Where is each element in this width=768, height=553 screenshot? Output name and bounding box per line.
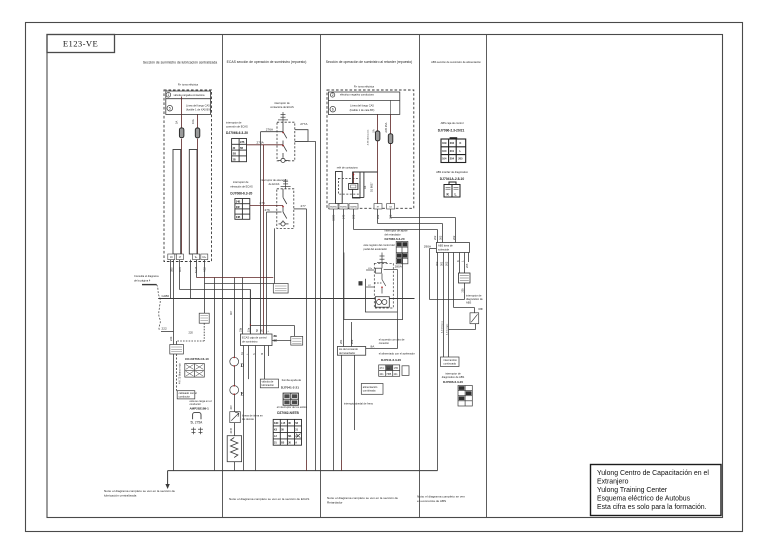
svg-text:104: 104	[442, 157, 447, 161]
svg-text:27B: 27B	[240, 141, 245, 144]
svg-text:conexión: conexión	[379, 341, 390, 345]
svg-text:5B: 5B	[240, 147, 243, 150]
svg-text:274: 274	[380, 367, 385, 370]
svg-text:34B: 34B	[236, 216, 241, 219]
svg-text:Yulong Training Center: Yulong Training Center	[597, 487, 668, 494]
svg-text:DJ7066-6.3-20: DJ7066-6.3-20	[230, 192, 252, 196]
svg-text:205: 205	[458, 157, 463, 161]
svg-text:277A: 277A	[300, 122, 308, 126]
svg-text:éste registro del control del: éste registro del control del	[364, 243, 396, 247]
svg-text:407: 407	[229, 405, 233, 410]
svg-text:Extranjero: Extranjero	[597, 479, 629, 486]
svg-text:277: 277	[301, 204, 306, 208]
svg-text:ABS sección de suministro de a: ABS sección de suministro de alimentació…	[431, 60, 481, 64]
svg-text:combinada: combinada	[363, 389, 376, 393]
svg-text:223: 223	[169, 336, 173, 341]
svg-text:G080: G080	[162, 294, 170, 298]
svg-text:CO-DZ766-C3-10: CO-DZ766-C3-10	[185, 357, 209, 361]
svg-text:K: K	[460, 141, 462, 145]
svg-text:R+ toma eléctrica: R+ toma eléctrica	[178, 83, 199, 87]
svg-text:M: M	[261, 353, 264, 355]
svg-text:DJ7041-6.3-20: DJ7041-6.3-20	[381, 358, 401, 362]
svg-text:DJ7041A-2.8-10: DJ7041A-2.8-10	[440, 177, 465, 181]
svg-text:interruptor de: interruptor de	[233, 180, 249, 184]
svg-text:de suministro: de suministro	[242, 339, 258, 343]
svg-text:los del comando: los del comando	[339, 347, 358, 351]
svg-text:E123-VE: E123-VE	[63, 39, 98, 49]
svg-text:Sección de operación de sumini: Sección de operación de suministro al re…	[326, 60, 413, 64]
svg-text:interruptor de: interruptor de	[226, 121, 242, 125]
svg-text:Nota: el diagrama completo se: Nota: el diagrama completo se ven en la …	[327, 496, 398, 500]
svg-text:Esquema eléctrico de Autobus: Esquema eléctrico de Autobus	[597, 496, 691, 503]
svg-text:Sección de suministro de lubri: Sección de suministro de lubricación cen…	[143, 61, 217, 65]
svg-text:válvula de: válvula de	[262, 380, 274, 384]
svg-text:8E: 8E	[274, 334, 278, 338]
svg-text:contactora de ECAS: contactora de ECAS	[270, 105, 294, 109]
svg-text:407: 407	[229, 310, 233, 315]
svg-text:SB: SB	[233, 153, 237, 156]
svg-text:202: 202	[444, 261, 448, 266]
svg-text:302: 302	[435, 261, 439, 266]
svg-text:continuado: continuado	[443, 361, 456, 365]
svg-text:D8F: D8F	[479, 308, 484, 311]
svg-text:2: 2	[332, 93, 334, 97]
svg-text:diagnóstico de ABS: diagnóstico de ABS	[442, 375, 465, 379]
svg-text:5L 275A: 5L 275A	[191, 421, 204, 425]
svg-text:30F: 30F	[236, 206, 241, 209]
svg-text:Consulta el diagrama: Consulta el diagrama	[134, 274, 159, 278]
svg-text:10+: 10+	[202, 256, 207, 259]
svg-text:202: 202	[433, 235, 437, 240]
svg-text:DJ7066-6.3-20: DJ7066-6.3-20	[385, 237, 405, 241]
svg-text:válvula cargada contactora: válvula cargada contactora	[174, 93, 206, 97]
svg-text:30(H5): 30(H5)	[350, 206, 357, 208]
svg-text:K: K	[456, 260, 460, 262]
svg-text:K30: K30	[274, 422, 279, 425]
svg-text:205: 205	[465, 263, 469, 268]
svg-text:201: 201	[450, 149, 455, 153]
svg-text:5: 5	[169, 106, 171, 110]
svg-text:8E: 8E	[274, 339, 278, 343]
svg-text:222: 222	[162, 327, 167, 331]
svg-text:DJ 6657: DJ 6657	[370, 182, 374, 192]
svg-text:10A: 10A	[191, 119, 195, 124]
svg-text:4-0.75 blanco rojo: 4-0.75 blanco rojo	[178, 363, 182, 384]
svg-text:34B: 34B	[236, 201, 241, 204]
svg-text:ABS: ABS	[466, 301, 471, 305]
svg-text:A: A	[295, 442, 297, 445]
svg-text:8A: 8A	[387, 367, 390, 370]
svg-text:262: 262	[376, 214, 380, 219]
svg-text:(fusible 1 de cata BX): (fusible 1 de cata BX)	[350, 108, 375, 112]
svg-text:ECAS caja de control: ECAS caja de control	[242, 336, 267, 340]
svg-text:ECAS sección de operación de s: ECAS sección de operación de suministro …	[227, 60, 307, 64]
svg-text:Nota: el diagrama completo se: Nota: el diagrama completo se ven	[417, 495, 465, 499]
svg-text:conductor: conductor	[179, 395, 191, 399]
svg-text:en economía de ABS: en economía de ABS	[417, 499, 446, 503]
svg-text:elevación de ECAS: elevación de ECAS	[230, 185, 253, 189]
svg-text:6: 6	[332, 107, 334, 111]
svg-text:el alimentado con el acelerado: el alimentado con el acelerador	[379, 352, 415, 356]
svg-text:204: 204	[450, 157, 455, 161]
svg-text:DZ7062-N/5TB: DZ7062-N/5TB	[277, 411, 299, 415]
svg-text:301: 301	[440, 261, 444, 266]
svg-text:alimentación: alimentación	[363, 385, 378, 389]
svg-text:L15: L15	[281, 422, 286, 425]
svg-text:Esta cifra es solo para la for: Esta cifra es solo para la formación.	[597, 504, 707, 511]
svg-text:A35 25A: A35 25A	[384, 122, 388, 132]
svg-text:2B: 2B	[233, 158, 236, 161]
svg-text:4-0.5 blanco: 4-0.5 blanco	[442, 320, 444, 333]
svg-text:205: 205	[462, 288, 465, 293]
svg-text:85(R5): 85(R5)	[340, 206, 347, 208]
svg-text:5A: 5A	[175, 121, 179, 124]
svg-text:100: 100	[442, 149, 447, 153]
svg-text:276: 276	[265, 208, 270, 212]
svg-text:interruptor de: interruptor de	[274, 101, 290, 105]
svg-text:ABS interfaz de diagnóstico: ABS interfaz de diagnóstico	[436, 170, 468, 174]
svg-text:276A: 276A	[266, 128, 274, 132]
svg-text:241: 241	[394, 373, 399, 376]
svg-text:de ECAS: de ECAS	[269, 182, 280, 186]
svg-text:Línea del fuego CA5: Línea del fuego CA5	[186, 103, 210, 107]
svg-text:Retardador: Retardador	[327, 501, 342, 505]
svg-text:4C5: 4C5	[178, 267, 182, 272]
svg-text:86(R5): 86(R5)	[330, 206, 337, 208]
svg-text:AMP282189-1: AMP282189-1	[190, 407, 210, 411]
svg-text:líneas de tierra en: líneas de tierra en	[242, 414, 263, 418]
svg-text:Nota: el diagrama completo se: Nota: el diagrama completo se ven en la …	[104, 489, 175, 493]
svg-text:eléctrico negativo conductora: eléctrico negativo conductora	[340, 93, 374, 97]
svg-text:conductor: conductor	[190, 402, 202, 406]
svg-text:4-0.5 negro: 4-0.5 negro	[445, 323, 448, 335]
svg-text:R+ toma eléctrica: R+ toma eléctrica	[354, 85, 375, 89]
svg-text:31b: 31b	[239, 327, 242, 332]
svg-text:Nota: el diagrama completo se: Nota: el diagrama completo se ven en la …	[229, 497, 309, 501]
svg-text:solenoide: solenoide	[438, 247, 450, 251]
svg-text:D4: D4	[363, 185, 367, 189]
svg-text:Línea del fuego CA5: Línea del fuego CA5	[350, 103, 374, 107]
svg-text:las demás: las demás	[242, 417, 255, 421]
svg-text:202: 202	[450, 141, 455, 145]
svg-text:del retardador: del retardador	[339, 351, 355, 355]
svg-text:(fusible 1 de XA5 BX): (fusible 1 de XA5 BX)	[186, 107, 211, 111]
svg-text:261: 261	[339, 339, 343, 344]
svg-text:el acuerdo con otro de: el acuerdo con otro de	[379, 338, 405, 342]
svg-text:1: 1	[168, 93, 170, 97]
svg-text:conexión de ECAS: conexión de ECAS	[226, 125, 248, 129]
svg-text:15a: 15a	[248, 327, 251, 332]
svg-text:lubricación: lubricación	[262, 383, 275, 387]
svg-text:220: 220	[189, 331, 194, 335]
svg-text:49 B: 49 B	[229, 428, 233, 434]
svg-text:5a+B: 5a+B	[194, 267, 198, 273]
svg-text:pedal del acelerador: pedal del acelerador	[364, 247, 388, 251]
svg-text:interruptor/pedal de freno: interruptor/pedal de freno	[344, 402, 374, 406]
svg-text:109: 109	[442, 141, 447, 145]
svg-text:de la página 4: de la página 4	[134, 279, 151, 283]
svg-text:interruptor de: interruptor de	[445, 372, 461, 376]
svg-text:Yulong Centro de Capacitación: Yulong Centro de Capacitación en el	[597, 470, 709, 477]
svg-text:241: 241	[380, 373, 385, 376]
svg-text:4-95 lubricación: 4-95 lubricación	[367, 129, 370, 145]
svg-text:lubricación centralizada: lubricación centralizada	[104, 494, 137, 498]
svg-text:280A: 280A	[395, 265, 403, 269]
svg-text:DJ7086-6.3-20: DJ7086-6.3-20	[443, 380, 463, 384]
svg-text:el interruptor de los estilos: el interruptor de los estilos	[277, 405, 308, 409]
svg-text:bomba ayuda de: bomba ayuda de	[282, 378, 302, 382]
svg-text:ABS caja de control: ABS caja de control	[441, 121, 464, 125]
svg-text:L: L	[455, 192, 457, 196]
svg-text:202: 202	[452, 235, 456, 240]
svg-text:HB5: HB5	[387, 373, 392, 376]
svg-text:5A: 5A	[371, 129, 375, 132]
svg-text:DJ7041-2-21: DJ7041-2-21	[281, 385, 299, 389]
svg-text:intercambio: intercambio	[443, 358, 457, 362]
svg-text:DJ7096-2.3-20/21: DJ7096-2.3-20/21	[438, 129, 465, 133]
svg-text:relé de contactora: relé de contactora	[337, 166, 358, 170]
svg-text:DJ7066-6.3-20: DJ7066-6.3-20	[226, 131, 248, 135]
svg-text:interruptor de: interruptor de	[466, 294, 482, 298]
svg-text:202: 202	[350, 339, 354, 344]
svg-text:290A: 290A	[424, 244, 432, 248]
svg-text:ABS área de: ABS área de	[438, 244, 453, 248]
svg-text:302: 302	[438, 235, 442, 240]
svg-text:interruptor de ajuste: interruptor de ajuste	[385, 229, 409, 233]
svg-text:cableado con el: cableado con el	[179, 391, 198, 395]
svg-text:diagnóstico de: diagnóstico de	[466, 297, 483, 301]
svg-text:17B: 17B	[394, 367, 399, 370]
